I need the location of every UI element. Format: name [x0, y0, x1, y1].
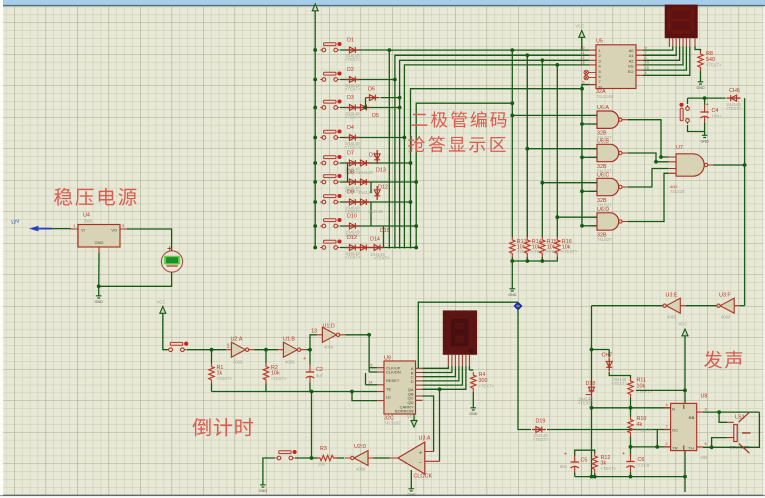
- wire row 5: [340, 162, 411, 164]
- wire trigger net upper: [591, 306, 593, 387]
- junction rail row 2: [313, 78, 317, 82]
- diode CH6: [727, 95, 741, 101]
- svg-text:U1:B: U1:B: [283, 337, 295, 343]
- wire reset pin: [366, 384, 378, 386]
- diode D3: [346, 105, 360, 111]
- wire to 555 TR pin: [631, 446, 671, 448]
- 7-segment display DS2: [443, 310, 477, 354]
- wire to + input: [423, 396, 434, 452]
- junction LE branch: [350, 390, 354, 394]
- svg-text:6: 6: [705, 442, 707, 446]
- wire U5 out 4 to display: [643, 47, 683, 65]
- junction U7 out: [743, 163, 747, 167]
- wire drop 3: [541, 60, 543, 237]
- svg-text:DC: DC: [672, 428, 678, 433]
- pin stub U9 right: [416, 384, 423, 386]
- wire R13 to gnd: [511, 257, 513, 285]
- svg-text:74LS20: 74LS20: [670, 189, 685, 194]
- regulator U4: [78, 225, 120, 248]
- wire row 4: [340, 137, 405, 139]
- svg-text:U6:D: U6:D: [597, 207, 609, 213]
- svg-text:1N4148: 1N4148: [368, 209, 383, 214]
- wire row 1: [340, 49, 390, 51]
- svg-text:<TEXT>: <TEXT>: [217, 376, 233, 381]
- wire row 6: [340, 181, 416, 183]
- svg-text:TR: TR: [672, 446, 677, 451]
- wire button to R3: [295, 457, 312, 459]
- pin stub U5 right 2: [636, 54, 643, 56]
- wire to R4: [469, 369, 473, 371]
- junction: [540, 181, 544, 185]
- svg-text:68u: 68u: [560, 464, 568, 469]
- wire U1:B out to U1:D: [306, 335, 317, 350]
- junction D6 row3: [364, 106, 368, 110]
- svg-text:10k: 10k: [318, 462, 326, 467]
- diode D7: [346, 160, 360, 166]
- junction rail row 4: [313, 136, 317, 140]
- junction: [683, 475, 687, 479]
- text 抢答显示区: [408, 136, 506, 153]
- ground R8: [696, 78, 705, 90]
- ground button: [259, 481, 268, 493]
- svg-text:GND: GND: [407, 493, 416, 497]
- svg-text:D18: D18: [586, 381, 596, 387]
- diode D5: [357, 105, 371, 111]
- wire R2 bottom lead: [265, 384, 267, 392]
- pin stub U5 right 1: [636, 49, 643, 51]
- wire common to U6:D input B: [582, 225, 597, 227]
- wire U9 out 3 to display2: [423, 366, 456, 376]
- wire button bottom: [688, 125, 705, 132]
- junction: [525, 259, 529, 263]
- wire CH6 left: [688, 97, 726, 99]
- svg-text:9: 9: [645, 46, 647, 50]
- wire common to U6:C input B: [582, 190, 597, 192]
- nand gate U6:D: [590, 213, 628, 230]
- pin stub U9 left: [377, 367, 384, 369]
- wire drop to U6:A input A: [512, 114, 597, 116]
- wire R3 to U2:D: [337, 457, 344, 459]
- diode D16: [357, 179, 371, 185]
- ground op-amp: [407, 485, 416, 497]
- blue junction diamond: [513, 301, 522, 310]
- wire link rows 7-8: [370, 202, 372, 226]
- svg-text:D7: D7: [347, 151, 354, 157]
- wire to R3: [312, 457, 318, 459]
- wire R10 down: [630, 437, 632, 457]
- wire to LE pin: [352, 392, 377, 401]
- wire D6 link down: [365, 98, 367, 108]
- wire bus line 1: [389, 50, 589, 248]
- junction rail: [683, 389, 687, 393]
- pin stub U9 left: [377, 384, 384, 386]
- svg-text:15: 15: [645, 66, 649, 70]
- junction bus drop 4: [555, 63, 559, 67]
- junction: [580, 155, 584, 159]
- svg-text:GND: GND: [95, 240, 104, 245]
- resistor R11: [628, 378, 633, 398]
- ground resistor bus: [508, 285, 517, 297]
- junction R1 top: [210, 348, 214, 352]
- wire U2:D to op-amp: [374, 457, 390, 459]
- junction: [655, 445, 659, 449]
- button S5: [320, 155, 341, 165]
- button S2: [320, 71, 341, 81]
- wire bus line 6: [416, 103, 512, 248]
- wire U5 out 1 to display: [643, 47, 673, 51]
- svg-text:D1: D1: [347, 38, 354, 44]
- timer U8 555: [664, 408, 703, 447]
- svg-text:5: 5: [370, 364, 372, 368]
- wire speaker bottom to loop: [712, 438, 727, 448]
- wire D19 to 555: [547, 429, 657, 431]
- pin stub U5 right 6: [636, 74, 643, 76]
- svg-text:<TEXT>: <TEXT>: [345, 57, 361, 62]
- svg-text:D3: D3: [347, 95, 354, 101]
- svg-text:U8: U8: [701, 394, 708, 400]
- svg-text:7: 7: [666, 425, 668, 429]
- svg-text:4069: 4069: [667, 315, 677, 320]
- inverter U1:B: [278, 342, 307, 357]
- junction rail row 1: [313, 48, 317, 52]
- wire U6:D out to U7: [628, 173, 669, 221]
- wire drop to U6:C input A: [542, 182, 597, 184]
- wire bus down to R3 net: [311, 392, 313, 459]
- junction bus drop 2: [525, 53, 529, 57]
- wire VCC rail 555: [684, 342, 686, 492]
- svg-text:EO: EO: [628, 69, 634, 74]
- wire bus line 5: [411, 89, 583, 249]
- svg-text:<TEXT>: <TEXT>: [706, 63, 722, 68]
- pin stub U5 left 1: [589, 49, 596, 51]
- junction: [629, 445, 633, 449]
- junction: [710, 445, 714, 449]
- svg-text:+: +: [564, 452, 567, 458]
- wire link: [370, 182, 372, 193]
- svg-text:D: D: [411, 379, 414, 384]
- pin stub U5 left 4: [589, 64, 596, 66]
- resistor R8: [698, 51, 703, 71]
- wire to 555 reset pin: [592, 407, 671, 409]
- resistor R2: [263, 364, 268, 384]
- wire C2 top lead: [309, 350, 311, 365]
- junction: [540, 259, 544, 263]
- svg-text:555: 555: [701, 455, 709, 460]
- wire common to U6:B input B: [582, 156, 597, 158]
- svg-text:6: 6: [645, 56, 647, 60]
- button S7: [320, 194, 341, 204]
- svg-text:GND: GND: [700, 140, 709, 144]
- wire U6:C out to U7: [628, 169, 669, 188]
- wire loop right: [703, 412, 759, 447]
- inverter U1:D: [317, 327, 346, 342]
- junction C4 top: [703, 96, 707, 100]
- wire reset vertical: [365, 373, 367, 385]
- junction: [510, 259, 514, 263]
- wire R11 to R10: [630, 398, 632, 417]
- svg-text:4069: 4069: [356, 467, 366, 472]
- svg-text:D9: D9: [347, 190, 354, 196]
- wire C2 bottom lead: [309, 383, 311, 392]
- svg-text:GND: GND: [469, 412, 478, 416]
- diode D11: [357, 160, 371, 166]
- junction: [510, 114, 514, 118]
- junction row 4: [403, 136, 407, 140]
- wire down to D19: [518, 302, 531, 429]
- diode D8: [346, 179, 360, 185]
- diode D4: [346, 135, 360, 141]
- nand gate U7 4-input: [669, 157, 714, 173]
- svg-text:CH7: CH7: [602, 353, 613, 359]
- pin stub U9 right: [416, 395, 423, 397]
- voltmeter: [161, 251, 182, 272]
- svg-text:CH6: CH6: [729, 88, 740, 94]
- svg-text:<TEXT>: <TEXT>: [562, 249, 578, 254]
- wire row 8: [340, 225, 416, 227]
- svg-text:U3:E: U3:E: [666, 293, 678, 299]
- wire down to counter: [368, 335, 370, 372]
- svg-text:GND: GND: [95, 300, 104, 304]
- junction bus corner: [310, 390, 314, 394]
- encoder U5: [596, 45, 636, 89]
- resistor R16: [555, 237, 560, 257]
- wire CH7 top lead: [608, 350, 610, 358]
- pin stub U5 right 4: [636, 64, 643, 66]
- resistor R4: [471, 372, 476, 392]
- svg-text:-: -: [420, 460, 422, 466]
- wire U5 out 6 to display: [643, 47, 690, 76]
- pin stub U9 right: [416, 372, 423, 374]
- wire display to R8: [695, 47, 701, 52]
- wire RC bus: [212, 391, 312, 393]
- svg-text:D6: D6: [368, 87, 375, 93]
- junction row 8: [414, 224, 418, 228]
- svg-text:U3:F: U3:F: [719, 293, 731, 299]
- svg-text:VO: VO: [111, 228, 117, 233]
- svg-text:7: 7: [645, 51, 647, 55]
- wire U4 gnd pin down: [98, 253, 100, 292]
- wire display2 pin 7: [468, 366, 470, 370]
- svg-text:13: 13: [580, 61, 584, 65]
- svg-text:D12: D12: [347, 235, 357, 241]
- svg-text:D13: D13: [376, 168, 386, 174]
- wire U9 out 6 to display2: [423, 366, 466, 389]
- svg-text:VCC: VCC: [157, 300, 166, 305]
- wire to INH pin: [369, 371, 377, 373]
- diode D2: [346, 77, 360, 83]
- svg-text:0.01uF: 0.01uF: [638, 463, 651, 468]
- junction row 9: [414, 246, 418, 250]
- svg-text:U6:C: U6:C: [597, 173, 609, 179]
- svg-text:10: 10: [580, 46, 584, 50]
- junction row 7: [409, 200, 413, 204]
- wire R1 top lead: [211, 350, 213, 364]
- svg-text:1: 1: [227, 344, 230, 350]
- svg-text:<TEXT>: <TEXT>: [533, 437, 549, 442]
- ground R4: [469, 404, 478, 416]
- wire row 7: [340, 201, 411, 203]
- button S12: [275, 450, 296, 460]
- svg-text:VI: VI: [81, 228, 85, 233]
- wire D6 to bus3: [381, 97, 400, 99]
- wire bus to TE pin: [312, 391, 378, 393]
- pin stub U5 left 5: [589, 84, 596, 86]
- junction rail row 9: [313, 246, 317, 250]
- wire to rail: [636, 389, 685, 391]
- diode D18: [586, 385, 595, 399]
- wire U3:F output: [740, 305, 745, 307]
- wire row 3: [340, 107, 400, 109]
- wire sound ground bus: [575, 476, 685, 478]
- svg-text:4069: 4069: [233, 360, 243, 365]
- wire to DC pin: [657, 429, 670, 431]
- svg-text:RESET: RESET: [386, 378, 400, 383]
- button S4: [320, 129, 341, 139]
- wire U9 out 2 to display2: [423, 366, 452, 372]
- resistor R10: [628, 417, 633, 437]
- wire U5 out 5 to display: [643, 47, 686, 71]
- svg-text:GS: GS: [689, 415, 695, 420]
- text 倒计时: [192, 418, 253, 437]
- svg-text:TE: TE: [386, 386, 391, 391]
- wire U9 out 1 to display2: [423, 366, 449, 368]
- svg-text:74LS27: 74LS27: [597, 237, 612, 242]
- pin stub U9 left: [377, 391, 384, 393]
- svg-text:D2: D2: [347, 67, 354, 73]
- ground C4: [700, 132, 709, 144]
- pin stub U5 left 3: [589, 59, 596, 61]
- svg-text:VCC: VCC: [679, 322, 688, 327]
- svg-text:BORROW: BORROW: [395, 409, 414, 414]
- pin stub U5 left 2: [589, 54, 596, 56]
- wire common to U6:A input B: [582, 123, 597, 125]
- svg-text:4069: 4069: [285, 360, 295, 365]
- wire R2 top lead: [265, 350, 267, 364]
- wire vertical right net: [744, 98, 746, 306]
- wire button top: [687, 98, 689, 104]
- junction: [590, 406, 594, 410]
- wire 555 Q right: [703, 411, 759, 413]
- wire U5 out 3 to display: [643, 47, 680, 61]
- pin stub U9 left: [377, 371, 384, 373]
- junction bus drop 1: [510, 48, 514, 52]
- wire row 2: [340, 79, 395, 81]
- junction bus1 corner: [387, 48, 391, 52]
- button S3: [320, 99, 341, 109]
- resistor R3: [317, 455, 337, 460]
- diode CH7: [606, 358, 612, 372]
- resistor R1: [209, 364, 214, 384]
- wire trigger net lower: [591, 397, 593, 477]
- diode D10: [346, 223, 360, 229]
- resistor R13: [510, 237, 515, 257]
- wire C4 to gnd: [704, 123, 706, 132]
- svg-text:<TEXT>: <TEXT>: [637, 428, 653, 433]
- button S11: [167, 342, 188, 352]
- wire drop to U6:B input A: [527, 148, 597, 150]
- wire: [541, 257, 543, 261]
- nand gate U6:A: [590, 111, 628, 128]
- svg-text:C5: C5: [581, 458, 588, 464]
- ground: [95, 292, 104, 304]
- svg-text:VCC: VCC: [576, 24, 585, 29]
- button S8: [320, 218, 341, 228]
- diode D14: [357, 245, 371, 251]
- junction rail row 3: [313, 106, 317, 110]
- junction: [438, 387, 442, 391]
- svg-text:12: 12: [580, 56, 584, 60]
- svg-text:+: +: [303, 356, 306, 362]
- svg-text:U2:A: U2:A: [231, 337, 243, 343]
- wire U9 out 5 to display2: [423, 366, 463, 385]
- power arrow VCC 555: [682, 329, 688, 342]
- svg-text:D5: D5: [372, 113, 379, 119]
- wire U1:D output: [345, 334, 369, 336]
- wire CH7 top link: [592, 349, 610, 351]
- junction: [659, 155, 663, 159]
- inverter U2:A: [226, 342, 255, 357]
- svg-text:<TEXT>: <TEXT>: [612, 381, 628, 386]
- wire voltmeter to gnd bus: [99, 272, 172, 286]
- wire opamp gnd: [410, 470, 412, 485]
- junction row 3: [398, 106, 402, 110]
- svg-text:D19: D19: [536, 419, 546, 425]
- button S10: [679, 103, 689, 124]
- pin stub U5 right 5: [636, 69, 643, 71]
- diode D6: [366, 95, 380, 101]
- wire R1 bottom lead: [211, 384, 213, 392]
- junction row 6: [414, 180, 418, 184]
- wire link rows 3-4: [389, 108, 391, 138]
- display DS2 pins: [448, 355, 469, 367]
- junction R3 net: [310, 456, 314, 460]
- svg-text:GND: GND: [508, 293, 517, 297]
- wire C4 top lead: [704, 98, 706, 104]
- diode D15: [374, 186, 380, 200]
- wire U4 VO to voltmeter: [127, 229, 172, 251]
- wire carry to latch net: [418, 302, 518, 368]
- wire drop 1: [511, 50, 513, 237]
- capacitor C2: [306, 365, 314, 383]
- svg-text:U5: U5: [596, 39, 603, 45]
- svg-text:11: 11: [581, 51, 585, 55]
- svg-text:U6:B: U6:B: [597, 139, 609, 145]
- power arrow op-amp: [411, 414, 417, 427]
- wire to CLK pin: [369, 367, 377, 369]
- wire drop 2: [526, 55, 528, 237]
- text 稳压电源: [54, 188, 136, 206]
- svg-text:+: +: [622, 451, 625, 457]
- svg-text:U2:D: U2:D: [354, 444, 366, 450]
- wire vcc stub: [581, 43, 583, 50]
- pin stub U9 right: [416, 399, 423, 401]
- junction bus drop 3: [540, 58, 544, 62]
- wire bus line 2: [395, 55, 589, 248]
- U5 enable pins with invert circles: [584, 70, 596, 80]
- button S9: [320, 239, 341, 249]
- pin stub U9 right: [416, 388, 423, 390]
- wire VCC rail vertical: [314, 17, 316, 248]
- wire U9 out 4 to display2: [423, 366, 459, 381]
- text 二极管编码: [412, 111, 507, 128]
- wire C5 to bus: [574, 473, 576, 477]
- svg-text:<TEXT>: <TEXT>: [578, 401, 594, 406]
- junction D6 bus3: [398, 96, 402, 100]
- junction: [590, 348, 594, 352]
- junction R2 top: [264, 348, 268, 352]
- junction: [629, 475, 633, 479]
- wire C6 to bus: [630, 472, 632, 477]
